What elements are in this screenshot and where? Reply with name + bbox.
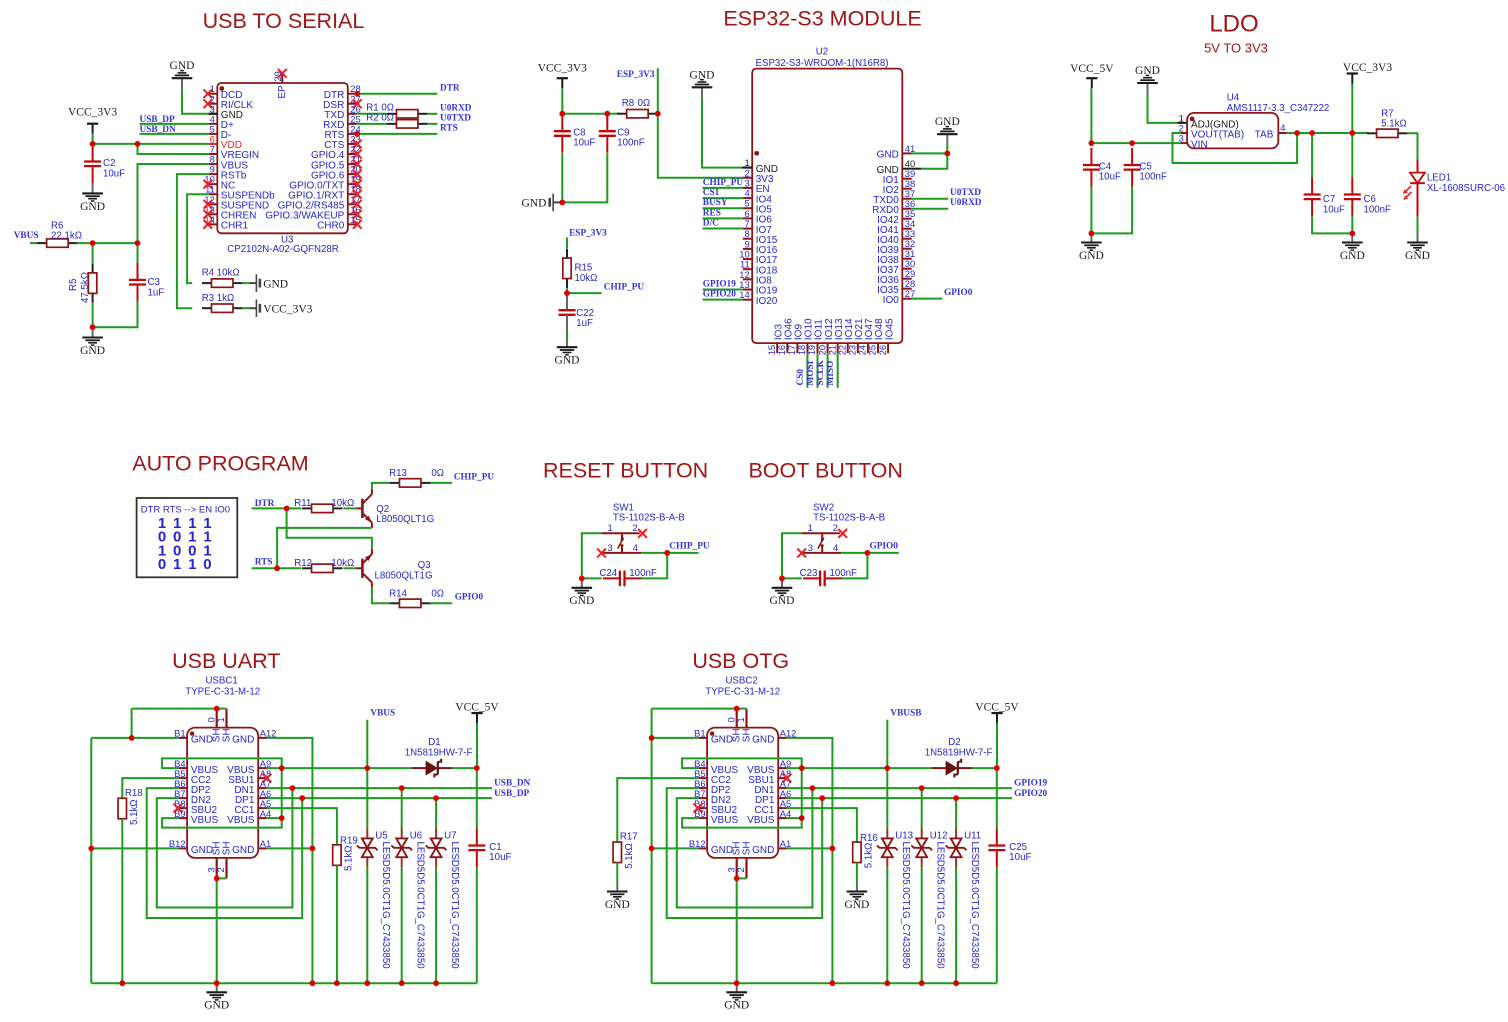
svg-text:10uF: 10uF bbox=[1323, 204, 1345, 215]
wire U13 bottom bbox=[886, 867, 888, 983]
capacitor C3 bbox=[129, 263, 164, 302]
junction bbox=[88, 846, 94, 852]
ground (R5/C3) bbox=[80, 327, 105, 357]
svg-text:LESD5D5.0CT1G_C7433850: LESD5D5.0CT1G_C7433850 bbox=[380, 842, 391, 970]
USBC1 labels bbox=[185, 676, 260, 698]
U3 refdes label bbox=[227, 234, 338, 255]
U2 pin 38 IO2 bbox=[883, 178, 916, 196]
wire pin4 right bbox=[841, 552, 867, 554]
svg-text:CHR0: CHR0 bbox=[317, 221, 345, 232]
USBC2 pin B12 bbox=[689, 838, 707, 849]
wire pin4 right bbox=[641, 552, 667, 554]
svg-text:10kΩ: 10kΩ bbox=[331, 558, 354, 569]
wire C6 bottom bbox=[1351, 216, 1353, 233]
ground (C6/C7) bbox=[1340, 233, 1365, 262]
wire VOUT loop bbox=[1173, 133, 1298, 163]
svg-text:10uF: 10uF bbox=[1009, 852, 1031, 863]
capacitor C23 bbox=[782, 568, 857, 586]
wire B1 bbox=[91, 737, 179, 739]
resistor R2 0R bbox=[356, 113, 437, 128]
svg-text:SCLK: SCLK bbox=[816, 359, 826, 385]
ground (C22) bbox=[555, 339, 580, 367]
svg-text:VCC_5V: VCC_5V bbox=[975, 701, 1019, 713]
capacitor C5 bbox=[1124, 148, 1167, 187]
wire U11 bottom bbox=[955, 867, 957, 983]
wire C8 bottom bbox=[561, 153, 563, 202]
U2 pin 18 IO10 bbox=[796, 318, 815, 355]
svg-text:LESD5D5.0CT1G_C7433850: LESD5D5.0CT1G_C7433850 bbox=[969, 842, 980, 970]
wire VREGIN bbox=[138, 144, 209, 154]
U2 pin 36 RXD0 bbox=[872, 198, 915, 216]
VCC_5V flag (LDO) bbox=[1070, 63, 1114, 88]
svg-text:GND: GND bbox=[711, 735, 733, 746]
svg-text:U0TXD: U0TXD bbox=[440, 113, 471, 123]
svg-text:D1: D1 bbox=[428, 737, 440, 748]
svg-text:0Ω: 0Ω bbox=[431, 588, 444, 599]
svg-text:GPIO20: GPIO20 bbox=[1014, 789, 1047, 799]
wire pin9 to R3 bbox=[177, 174, 209, 308]
wire C22 bottom bbox=[566, 332, 568, 339]
svg-text:SH: SH bbox=[221, 841, 232, 855]
svg-text:TYPE-C-31-M-12: TYPE-C-31-M-12 bbox=[185, 686, 260, 697]
svg-text:5.1kΩ: 5.1kΩ bbox=[863, 843, 874, 869]
wire U13 top bbox=[886, 768, 888, 829]
VCC_3V3 bar flag (R3) bbox=[256, 299, 312, 317]
svg-text:GND: GND bbox=[204, 1000, 229, 1012]
net label GPIO0 bbox=[870, 542, 899, 552]
resistor R5 47.5k bbox=[68, 263, 97, 303]
junction bbox=[734, 980, 740, 986]
wire VBUSB column bbox=[886, 720, 888, 768]
svg-text:GPIO0: GPIO0 bbox=[455, 593, 484, 603]
svg-text:GND: GND bbox=[724, 1000, 749, 1012]
svg-text:GND: GND bbox=[263, 278, 288, 290]
svg-text:USBC1: USBC1 bbox=[205, 676, 237, 687]
wire U5 top bbox=[366, 768, 368, 829]
junction bbox=[433, 795, 439, 801]
junction bbox=[944, 151, 950, 157]
U3 pin 19 GPIO.0/TXT bbox=[289, 174, 361, 192]
svg-text:10uF: 10uF bbox=[573, 138, 595, 149]
wire A9 out bbox=[787, 767, 888, 769]
IC U3 CP2102N body bbox=[217, 83, 347, 233]
wire ESP_3V3 stub bbox=[566, 238, 568, 249]
svg-text:5V TO 3V3: 5V TO 3V3 bbox=[1204, 40, 1268, 55]
wire to R8 bbox=[607, 113, 618, 115]
USBC2 pin A1 bbox=[778, 838, 791, 849]
pin2 no-connect bbox=[838, 529, 847, 538]
resistor R13 0R bbox=[389, 468, 444, 487]
svg-text:R3 1kΩ: R3 1kΩ bbox=[202, 293, 235, 304]
junction bbox=[734, 706, 740, 712]
USBC2 pin B1 bbox=[694, 728, 707, 739]
U2 pin 20 IO12 bbox=[816, 318, 835, 355]
junction bbox=[214, 980, 220, 986]
U2 pin 32 IO39 bbox=[877, 238, 915, 256]
U3 pin 23 CTS bbox=[324, 133, 361, 151]
svg-text:VIN: VIN bbox=[1191, 140, 1208, 151]
svg-text:LESD5D5.0CT1G_C7433850: LESD5D5.0CT1G_C7433850 bbox=[900, 842, 911, 970]
USBC2 pin A7 bbox=[754, 778, 791, 796]
junction bbox=[649, 846, 655, 852]
U2 pin 31 IO38 bbox=[877, 248, 915, 266]
wire VBUS bbox=[30, 242, 38, 244]
wire SCLK bbox=[827, 353, 829, 388]
wire A12 gnd bbox=[267, 738, 313, 983]
wire D/C bbox=[703, 228, 743, 230]
wire pin40 gnd bbox=[912, 153, 948, 168]
U2 pin 8 IO15 bbox=[743, 228, 778, 246]
svg-text:100nF: 100nF bbox=[629, 568, 657, 579]
junction bbox=[399, 785, 405, 791]
resistor R18 5.1k bbox=[118, 788, 143, 825]
svg-text:U2: U2 bbox=[816, 47, 828, 58]
svg-text:R12: R12 bbox=[294, 558, 312, 569]
svg-text:RTS: RTS bbox=[255, 558, 273, 568]
connector USBC1 body bbox=[187, 728, 258, 858]
wire R6 to junction bbox=[77, 242, 93, 244]
U2 pin 2 3V3 bbox=[743, 167, 774, 185]
junction bbox=[994, 765, 1000, 771]
SH pins 0/1 top bbox=[205, 709, 232, 743]
svg-text:1N5819HW-7-F: 1N5819HW-7-F bbox=[925, 748, 993, 759]
svg-text:BUSY: BUSY bbox=[703, 198, 728, 208]
wire pin3 to GND bbox=[182, 88, 217, 113]
junction bbox=[579, 576, 585, 582]
U2 pin 28 IO35 bbox=[877, 278, 915, 296]
svg-text:100nF: 100nF bbox=[1139, 172, 1167, 183]
svg-text:1: 1 bbox=[808, 522, 813, 533]
svg-text:L8050QLT1G: L8050QLT1G bbox=[375, 570, 433, 581]
wire RTS to R12 bbox=[277, 567, 301, 569]
svg-text:5.1kΩ: 5.1kΩ bbox=[1381, 118, 1407, 129]
svg-text:BOOT BUTTON: BOOT BUTTON bbox=[748, 459, 903, 483]
wire R18 gnd bbox=[121, 819, 123, 984]
svg-text:14: 14 bbox=[739, 289, 749, 300]
wire C4 bottom bbox=[1090, 187, 1092, 234]
USBC2 pin A12 bbox=[778, 728, 796, 739]
wire CC2 to R17 bbox=[617, 778, 699, 842]
ground (main) bbox=[724, 983, 749, 1012]
U3 pin 27 DSR bbox=[323, 93, 362, 111]
connector USBC2 body bbox=[707, 728, 778, 858]
svg-text:U11: U11 bbox=[964, 831, 981, 842]
svg-text:GND: GND bbox=[770, 595, 795, 607]
net label GPIO19 bbox=[1014, 779, 1047, 789]
section title BOOT BUTTON bbox=[748, 459, 903, 483]
capacitor C8 bbox=[554, 114, 596, 153]
U3 pin 22 GPIO.4 bbox=[311, 144, 362, 162]
svg-text:LESD5D5.0CT1G_C7433850: LESD5D5.0CT1G_C7433850 bbox=[935, 842, 946, 970]
svg-text:DTR: DTR bbox=[440, 83, 460, 93]
svg-text:GND: GND bbox=[1340, 250, 1365, 262]
wire MOSI bbox=[817, 353, 819, 388]
svg-text:MISO: MISO bbox=[826, 361, 836, 386]
wire ESP_3V3 vertical bbox=[658, 68, 743, 178]
U3 pin 14 CHR1 bbox=[203, 214, 248, 232]
svg-text:GND: GND bbox=[191, 845, 213, 856]
USBC1 pin B4 bbox=[174, 758, 218, 776]
svg-text:VCC_3V3: VCC_3V3 bbox=[263, 304, 312, 316]
wire VCC col down bbox=[476, 768, 478, 828]
GND names bottom bbox=[191, 845, 255, 856]
svg-text:D/C: D/C bbox=[703, 219, 719, 229]
svg-text:GPIO0: GPIO0 bbox=[870, 542, 899, 552]
svg-text:VBUS: VBUS bbox=[227, 815, 255, 826]
TVS diode U6 bbox=[391, 828, 425, 969]
svg-text:5.1kΩ: 5.1kΩ bbox=[343, 845, 354, 871]
section title USB TO SERIAL bbox=[203, 9, 365, 33]
U2 pin 35 IO42 bbox=[877, 208, 915, 226]
wire DTR in bbox=[252, 507, 287, 509]
svg-text:R4 10kΩ: R4 10kΩ bbox=[202, 268, 240, 279]
svg-text:Q3: Q3 bbox=[418, 560, 431, 571]
svg-text:R14: R14 bbox=[389, 588, 407, 599]
wire RTS in bbox=[252, 567, 277, 569]
svg-text:TYPE-C-31-M-12: TYPE-C-31-M-12 bbox=[705, 686, 780, 697]
svg-text:LESD5D5.0CT1G_C7433850: LESD5D5.0CT1G_C7433850 bbox=[449, 842, 460, 970]
svg-text:2: 2 bbox=[833, 522, 838, 533]
wire C3 bottom bbox=[93, 301, 138, 327]
svg-text:1: 1 bbox=[735, 717, 746, 722]
wire D to VCC column bbox=[972, 767, 997, 769]
svg-text:R17: R17 bbox=[620, 832, 638, 843]
junction bbox=[364, 765, 370, 771]
U2 pin 25 IO48 bbox=[867, 318, 886, 355]
wire A1 bbox=[267, 847, 313, 849]
svg-text:USB OTG: USB OTG bbox=[692, 649, 789, 673]
junction bbox=[1089, 140, 1095, 146]
capacitor C24 bbox=[582, 568, 657, 586]
U2 pin 22 IO14 bbox=[836, 318, 855, 355]
svg-text:LESD5D5.0CT1G_C7433850: LESD5D5.0CT1G_C7433850 bbox=[415, 842, 426, 970]
net label VBUS bbox=[14, 231, 39, 241]
junction bbox=[1309, 130, 1315, 136]
USBC2 pin A9 bbox=[747, 758, 791, 776]
svg-text:U0RXD: U0RXD bbox=[440, 103, 472, 113]
net label RTS bbox=[440, 124, 458, 134]
junction bbox=[364, 980, 370, 986]
junction bbox=[90, 240, 96, 246]
net label GPIO20 bbox=[1014, 789, 1047, 799]
svg-text:CS1: CS1 bbox=[703, 188, 720, 198]
wire DTR to R11 bbox=[287, 507, 302, 509]
U4 pin 4 TAB bbox=[1255, 122, 1287, 140]
svg-text:SH: SH bbox=[741, 841, 752, 855]
junction bbox=[284, 506, 290, 512]
svg-text:41: 41 bbox=[905, 143, 915, 154]
capacitor C1 bbox=[468, 829, 511, 868]
svg-text:USB_DP: USB_DP bbox=[494, 789, 529, 799]
U3 pin 16 GPIO.3/WAKEUP bbox=[265, 204, 361, 222]
USBC2 pin B7 bbox=[694, 788, 731, 806]
svg-text:AUTO PROGRAM: AUTO PROGRAM bbox=[132, 452, 308, 476]
wire B1 bbox=[652, 737, 699, 739]
U3 pin 28 DTR bbox=[324, 83, 361, 101]
wire CS0 bbox=[806, 353, 808, 388]
switch SW2 bbox=[802, 522, 841, 553]
net label GPIO19 bbox=[703, 280, 736, 290]
junction bbox=[884, 980, 890, 986]
wire R19 gnd bbox=[336, 865, 338, 983]
svg-text:VBUS: VBUS bbox=[747, 815, 775, 826]
wire U6 top bbox=[401, 788, 403, 829]
wire Q2 collector to R13 bbox=[372, 483, 390, 489]
svg-text:ESP_3V3: ESP_3V3 bbox=[617, 70, 655, 80]
wire pin1 left bbox=[582, 533, 602, 578]
svg-text:U6: U6 bbox=[410, 831, 422, 842]
wire pin1 left bbox=[782, 533, 802, 578]
net label CHIP_PU (R15) bbox=[604, 283, 645, 293]
wire R3 to VCC flag bbox=[242, 307, 257, 309]
svg-text:IO20: IO20 bbox=[756, 296, 778, 307]
resistor R1 0R bbox=[356, 102, 437, 118]
SW1 labels bbox=[613, 502, 685, 523]
svg-text:5.1kΩ: 5.1kΩ bbox=[129, 799, 140, 825]
svg-text:RES: RES bbox=[703, 208, 721, 218]
resistor R7 5.1k bbox=[1367, 109, 1408, 138]
USBC1 pin A7 bbox=[234, 778, 271, 796]
junction bbox=[214, 706, 220, 712]
svg-text:TAB: TAB bbox=[1255, 129, 1274, 140]
wire VCC down bbox=[561, 88, 563, 114]
junction bbox=[1294, 130, 1300, 136]
ground (C24) bbox=[569, 578, 594, 607]
section title USB OTG bbox=[692, 649, 789, 673]
svg-text:0Ω: 0Ω bbox=[431, 468, 444, 479]
net label MOSI bbox=[806, 360, 816, 385]
junction bbox=[90, 324, 96, 330]
net label D/C bbox=[703, 219, 719, 229]
junction bbox=[1089, 231, 1095, 237]
wire R12 to Q3 base bbox=[343, 567, 356, 569]
svg-text:GPIO19: GPIO19 bbox=[1014, 779, 1047, 789]
U2 pin 7 IO7 bbox=[743, 218, 772, 236]
svg-text:GPIO20: GPIO20 bbox=[703, 290, 736, 300]
svg-text:LDO: LDO bbox=[1209, 11, 1258, 38]
diode D1 schottky bbox=[405, 737, 473, 777]
USBC2 pin B5 bbox=[694, 768, 731, 786]
wire R15 bottom bbox=[566, 288, 568, 293]
wire pin41 gnd bbox=[912, 144, 948, 154]
U2 pin 13 IO19 bbox=[739, 279, 778, 297]
junction bbox=[559, 200, 565, 206]
VCC_3V3 flag (left) bbox=[68, 107, 117, 134]
wire GPIO0 out bbox=[867, 552, 898, 554]
section title RESET BUTTON bbox=[543, 459, 708, 483]
svg-text:GND: GND bbox=[80, 345, 105, 357]
U2 pin 39 IO1 bbox=[883, 168, 916, 186]
USBC1 pin B9 bbox=[174, 808, 218, 826]
wire DP2 loop bbox=[667, 788, 823, 918]
net label VBUSB bbox=[890, 709, 921, 719]
wire DP2 loop bbox=[147, 788, 303, 918]
wire CC2 to R18 bbox=[122, 778, 179, 798]
wire D to VCC column bbox=[452, 767, 477, 769]
svg-text:3: 3 bbox=[1179, 133, 1184, 144]
U3 pin 1 DCD bbox=[203, 83, 242, 101]
wire GPIO20 bbox=[703, 299, 743, 301]
GND flag (U4 adj) bbox=[1135, 65, 1160, 93]
resistor R15 10k bbox=[563, 249, 598, 288]
svg-text:GND: GND bbox=[1405, 250, 1430, 262]
GND rail bbox=[652, 982, 997, 984]
svg-text:0Ω: 0Ω bbox=[638, 98, 651, 109]
capacitor C25 bbox=[988, 829, 1031, 868]
wire A9 row to D bbox=[887, 767, 932, 769]
wire U7 top bbox=[435, 798, 437, 829]
svg-text:5.1kΩ: 5.1kΩ bbox=[624, 843, 635, 869]
svg-text:GND: GND bbox=[1079, 250, 1104, 262]
wire R4 to GND flag bbox=[242, 282, 257, 284]
junction bbox=[953, 980, 959, 986]
svg-text:GND: GND bbox=[935, 116, 960, 128]
IC U2 ESP32 body bbox=[752, 69, 902, 344]
wire A1 bbox=[787, 847, 833, 849]
net label USB_DP bbox=[494, 789, 529, 799]
capacitor C2 bbox=[84, 145, 125, 184]
VCC_5V flag (usb) bbox=[455, 701, 499, 723]
wire U7 bottom bbox=[435, 867, 437, 983]
net label DTR (autoprog) bbox=[255, 499, 275, 509]
wire VBUS bracket bottom bbox=[162, 818, 282, 828]
wire VBUS bracket bottom bbox=[682, 818, 802, 828]
junction bbox=[810, 785, 816, 791]
svg-text:4: 4 bbox=[833, 542, 838, 553]
resistor R12 10k bbox=[294, 558, 354, 573]
U4 pin 3 VIN bbox=[1179, 133, 1208, 151]
U2 pin 30 IO37 bbox=[877, 258, 915, 276]
TVS diode U13 bbox=[877, 828, 913, 969]
U2 pin 12 IO8 bbox=[739, 269, 772, 287]
svg-text:27: 27 bbox=[905, 288, 915, 299]
svg-text:1: 1 bbox=[215, 717, 226, 722]
TVS diode U12 bbox=[911, 828, 947, 969]
section subtitle 5V TO 3V3 bbox=[1204, 40, 1268, 55]
U3 pin 12 SUSPEND bbox=[203, 194, 269, 212]
svg-text:CHR1: CHR1 bbox=[221, 221, 249, 232]
IC U4 AMS1117 body bbox=[1187, 113, 1278, 148]
transistor Q2 bbox=[356, 489, 434, 528]
wire VCC_5V down bbox=[1090, 88, 1092, 143]
svg-text:C24: C24 bbox=[599, 568, 617, 579]
svg-text:2: 2 bbox=[735, 867, 746, 872]
svg-text:VBUS: VBUS bbox=[370, 709, 395, 719]
svg-text:10uF: 10uF bbox=[489, 852, 511, 863]
wire DP1 out bbox=[787, 797, 1013, 799]
wire CHIP_PU out bbox=[667, 552, 698, 554]
junction bbox=[559, 111, 565, 117]
resistor R14 0R bbox=[389, 588, 444, 607]
USBC1 pin A5 bbox=[234, 798, 271, 816]
svg-text:VBUS: VBUS bbox=[191, 815, 219, 826]
U3 pin 9 RSTb bbox=[209, 164, 247, 182]
svg-text:R13: R13 bbox=[389, 468, 407, 479]
svg-text:R16: R16 bbox=[860, 833, 878, 844]
svg-text:GND: GND bbox=[752, 735, 774, 746]
net label U0RXD (U2) bbox=[950, 198, 982, 208]
TVS diode U5 bbox=[357, 828, 391, 969]
svg-text:VCC_3V3: VCC_3V3 bbox=[1343, 62, 1392, 74]
VCC_5V flag (usb) bbox=[975, 701, 1019, 723]
svg-text:R2: R2 bbox=[366, 113, 378, 124]
capacitor C7 bbox=[1304, 178, 1345, 217]
wire CC1 to R16 bbox=[787, 808, 857, 842]
svg-text:10kΩ: 10kΩ bbox=[575, 273, 598, 284]
net label VBUS bbox=[370, 709, 395, 719]
svg-text:GND: GND bbox=[1135, 65, 1160, 77]
svg-text:R19: R19 bbox=[340, 836, 358, 847]
